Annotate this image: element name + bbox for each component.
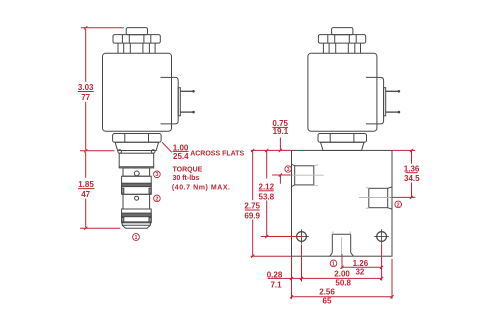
ext hole right down [381,244,383,280]
svg-text:1: 1 [332,261,335,267]
svg-text:30 ft-lbs: 30 ft-lbs [173,175,200,182]
body land A [123,168,150,176]
body land C [123,194,150,209]
svg-text:TORQUE: TORQUE [173,166,203,173]
dim 1.36 line upper [411,150,413,163]
svg-text:(40.7 Nm) MAX.: (40.7 Nm) MAX. [172,185,231,192]
port 1 top line [332,233,350,235]
tick 0.75 bottom [279,173,282,176]
svg-text:32: 32 [355,268,364,277]
dim 2.75 line lower [252,220,254,257]
svg-text:69.9: 69.9 [244,211,260,220]
svg-text:65: 65 [323,297,332,306]
tick 2.00 right [380,277,383,280]
thread section [119,153,154,168]
port label 2 right view [395,201,402,208]
port 3 boss rect [295,166,314,185]
groove B seal right [149,188,151,193]
svg-text:1.85: 1.85 [78,180,94,189]
port label 3 right view [285,166,291,172]
port 3 faint centerline [292,174,324,176]
port 1 right side [350,234,352,252]
tick 2.75 top [251,149,254,152]
port 3 chamfer bottom [292,185,295,187]
mounting hole right crosshair h [374,236,389,238]
port 2 faint chamfer bottom [366,207,369,210]
port 3 faint chamfer bottom [314,185,318,186]
manifold block body [292,150,393,256]
svg-text:1: 1 [135,235,138,241]
dim 1.85 line upper [85,152,87,178]
dim 1.26 line [342,266,382,268]
svg-text:2: 2 [156,196,159,202]
mounting hole right [377,232,387,242]
svg-text:47: 47 [81,190,90,199]
tick 2.12 top [265,149,268,152]
dim 0.75 arrow line lower [279,175,281,183]
svg-text:2: 2 [397,202,400,208]
dim 3.03 top extension line [81,27,124,29]
mounting hole left crosshair h [294,236,309,238]
port label 3 left view [154,171,161,178]
port hole 2 [135,196,139,200]
port label 2 left view [154,195,161,202]
svg-text:19.1: 19.1 [273,127,289,136]
dim 0.75 fraction bar [272,126,288,128]
port label 1 left view [133,234,140,241]
shared extension line mid [80,150,114,152]
svg-text:25.4: 25.4 [173,152,189,161]
mounting hole left crosshair v [301,229,303,244]
svg-text:3: 3 [287,167,290,173]
leader across flats [162,142,172,152]
tick 2.12 bottom [265,235,268,238]
block bottom ext left [251,255,292,257]
svg-text:7.1: 7.1 [270,280,282,289]
groove B seal left [122,188,124,193]
tick 0.75 top [279,149,282,152]
dim 2.75 line upper [252,150,254,200]
groove D inner line [122,221,152,223]
dim 2.56 line [292,296,393,298]
port 1 faint tick left [332,231,334,234]
fraction bar 1.36/34.5 [406,172,418,174]
port hole 3 [134,171,139,176]
dim 1.85 line lower [85,199,87,228]
port 2 chamfer top [388,187,392,188]
port 1 chamfer right [351,253,354,256]
svg-text:77: 77 [81,93,90,102]
port 2 boss rect [369,188,388,207]
bottom extension line [80,227,120,229]
fraction bar 2.75/69.9 [245,209,260,211]
svg-text:50.8: 50.8 [335,279,351,288]
tick 1.36 top [410,149,413,152]
svg-text:2.75: 2.75 [244,201,260,210]
port3 centerline ext [272,174,291,176]
groove band B [122,176,152,194]
dim 2.12 line lower [266,201,268,237]
svg-text:1.26: 1.26 [353,259,369,268]
svg-text:0.28: 0.28 [267,271,283,280]
svg-text:3.03: 3.03 [78,83,94,92]
tick 0.28 left [290,277,293,280]
port label 1 right view [330,260,337,267]
groove B o-ring stripe [122,183,152,186]
dim 1.36 line lower [411,183,413,198]
thread relief line [119,166,154,168]
fraction bar 2.12/53.8 [259,190,274,192]
dim 3.03 line upper [85,29,87,82]
ext block right edge down [391,259,393,299]
block top ext right [392,149,415,151]
ext block left edge down [291,256,293,299]
dim 2.00 and 0.28 line [268,277,382,279]
hole centerline ext [261,236,302,238]
solenoid valve upper assembly (left view) [103,28,195,151]
fraction bar 1.85/47 [78,188,94,190]
nose chamfer line [122,224,150,226]
port 1 faint centerline [341,237,343,256]
tick 2.75 bottom [251,255,254,258]
svg-text:53.8: 53.8 [259,192,275,201]
groove band D [122,209,152,223]
svg-text:34.5: 34.5 [404,174,420,183]
port 2 chamfer bottom [388,208,392,209]
solenoid valve upper assembly (right view) [308,28,400,151]
tick 1.26 right [380,266,383,269]
mounting hole right crosshair v [381,229,383,244]
port 2 faint centerline [359,197,392,199]
tick 2.56 left [290,295,293,298]
tick bottom [84,227,87,230]
block top ext left [251,149,292,151]
fraction bar 3.03/77 [78,91,94,93]
ext hole left down [301,245,303,282]
svg-text:2.00: 2.00 [334,270,350,279]
svg-text:ACROSS FLATS: ACROSS FLATS [190,151,244,158]
tick 1.26 left [340,266,343,269]
port 1 faint tick right [349,231,351,234]
tick 1.36 bottom [410,196,413,199]
port2 centerline ext [392,196,415,198]
tick 0.28 right / 2.00 left [300,277,303,280]
tick 3.03 top [84,26,87,29]
fraction bar 1.00/25.4 [173,150,189,152]
svg-text:3: 3 [156,172,159,178]
nose tip [122,223,150,229]
svg-text:2.56: 2.56 [319,287,335,296]
ext port1 centerline down [341,254,343,269]
dim 0.75 arrow line upper [279,138,281,151]
port 2 faint chamfer top [366,186,369,189]
svg-text:2.12: 2.12 [259,182,275,191]
groove D seal right [149,218,151,222]
dim 3.03 line lower [85,102,87,150]
o-ring right [151,150,155,154]
tick mid [84,149,87,152]
groove D seal left [122,218,124,222]
o-ring left [118,150,122,154]
svg-text:1.36: 1.36 [404,164,420,173]
tick 2.56 right [390,295,393,298]
port 1 chamfer left [330,253,332,256]
port 3 chamfer top [292,164,295,166]
port 3 faint chamfer top [314,165,318,166]
mounting hole left [297,232,307,242]
dim 2.12 line upper [266,150,268,178]
groove D o-ring stripe [122,213,152,217]
port 1 left side [331,234,333,252]
